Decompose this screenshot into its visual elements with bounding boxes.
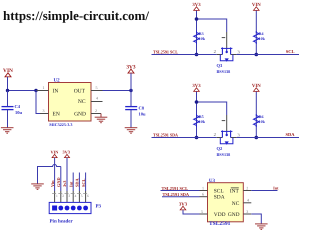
svg-text:MIC5225-3.3: MIC5225-3.3 bbox=[49, 122, 72, 127]
svg-text:Pin header: Pin header bbox=[50, 218, 74, 224]
svg-text:2: 2 bbox=[246, 185, 248, 190]
svg-text:10k: 10k bbox=[259, 36, 266, 41]
svg-text:TSL2591 SDA: TSL2591 SDA bbox=[163, 192, 190, 197]
svg-text:Vin: Vin bbox=[50, 180, 55, 187]
wire U3 SDA bbox=[162, 196, 200, 198]
pin 2 GND stub bbox=[91, 113, 101, 115]
svg-text:GND: GND bbox=[74, 112, 86, 118]
node 3V3 power flag (regulator output) bbox=[126, 64, 136, 90]
pin 5 OUT stub bbox=[91, 90, 103, 92]
svg-text:VDD: VDD bbox=[214, 212, 226, 218]
wire U3 INT bbox=[251, 190, 277, 192]
resistor R3 10k bbox=[194, 31, 206, 44]
node VIN flag (SCL pullup) bbox=[252, 2, 261, 54]
pin 5 VDD stub bbox=[200, 213, 208, 215]
resistor R6 10k bbox=[254, 114, 266, 127]
svg-text:P3: P3 bbox=[96, 204, 102, 210]
wire header pin5 SDA bbox=[78, 173, 80, 192]
ground at U3 GND bbox=[255, 224, 268, 230]
svg-text:BSS138: BSS138 bbox=[217, 69, 231, 74]
pin 2 INT stub bbox=[243, 190, 251, 192]
junction R4/SCL rail bbox=[254, 53, 258, 57]
svg-text:1: 1 bbox=[56, 194, 58, 198]
svg-text:10k: 10k bbox=[199, 36, 206, 41]
svg-text:BSS138: BSS138 bbox=[217, 152, 231, 157]
svg-text:Q3: Q3 bbox=[217, 63, 224, 68]
svg-text:10u: 10u bbox=[139, 112, 147, 117]
node 3V3 flag above header bbox=[62, 150, 69, 158]
svg-text:EN: EN bbox=[53, 112, 60, 118]
svg-text:U2: U2 bbox=[54, 78, 61, 84]
wire Q2 drain to SDA bbox=[231, 137, 237, 139]
resistor R4 10k bbox=[254, 31, 266, 44]
svg-text:INT: INT bbox=[230, 189, 240, 195]
svg-text:5: 5 bbox=[96, 85, 98, 90]
wire gate branch SCL bbox=[197, 19, 227, 32]
svg-text:4: 4 bbox=[247, 198, 249, 203]
pin 3 GND stub bbox=[243, 213, 251, 215]
svg-text:SCL: SCL bbox=[81, 179, 86, 187]
svg-text:3v3: 3v3 bbox=[62, 181, 67, 187]
wire VIN rail to U2 IN bbox=[7, 90, 37, 92]
svg-text:OUT: OUT bbox=[74, 88, 86, 94]
pin 6 SDA stub bbox=[200, 196, 208, 198]
wire header pin4 Int bbox=[72, 173, 74, 192]
pin 4 NC stub bbox=[243, 202, 251, 204]
junction at OUT/C8 bbox=[129, 89, 132, 92]
svg-text:Q2: Q2 bbox=[217, 146, 224, 151]
svg-text:TSL2591 SDA: TSL2591 SDA bbox=[153, 133, 179, 138]
junction at EN branch bbox=[34, 89, 37, 92]
node 3V3 flag (SCL pullup) bbox=[192, 2, 201, 54]
node VIN power flag (regulator input) bbox=[3, 68, 13, 91]
wire header pin3 3v3 bbox=[66, 158, 68, 191]
transistor Q3 BSS138 bbox=[214, 38, 241, 74]
svg-text:10u: 10u bbox=[15, 110, 23, 115]
svg-text:3: 3 bbox=[68, 194, 70, 198]
svg-text:Int: Int bbox=[273, 186, 279, 191]
header round pads 2-6 bbox=[58, 206, 63, 211]
svg-text:C4: C4 bbox=[15, 104, 21, 109]
ground at header GND bbox=[31, 184, 44, 190]
svg-text:NC: NC bbox=[232, 201, 240, 207]
capacitor C4 bbox=[2, 91, 23, 128]
svg-text:1: 1 bbox=[43, 85, 45, 90]
pin 4 NC stub bbox=[91, 101, 103, 103]
node VIN flag above header bbox=[50, 150, 59, 158]
wire header pin6 SCL bbox=[85, 173, 87, 192]
wire U3 GND to ground bbox=[251, 214, 261, 224]
svg-text:SDA: SDA bbox=[285, 132, 295, 137]
svg-text:10k: 10k bbox=[259, 119, 266, 124]
wire Q3 drain to SCL bbox=[231, 54, 237, 56]
wire header pin2 GND with hop over pin1 wire bbox=[38, 165, 61, 184]
ground below C8 bbox=[125, 128, 138, 134]
svg-text:U3: U3 bbox=[209, 178, 216, 184]
pin 1 IN stub bbox=[37, 90, 49, 92]
regulator U2 MIC5225-3.3 bbox=[49, 78, 92, 127]
svg-text:4: 4 bbox=[96, 96, 98, 101]
svg-text:6: 6 bbox=[87, 194, 89, 198]
junction R5/SDA rail bbox=[195, 136, 199, 140]
wire TSL2591 SDA to Q2 source bbox=[152, 137, 217, 139]
svg-text:3V3: 3V3 bbox=[62, 150, 69, 155]
svg-text:2: 2 bbox=[95, 108, 97, 113]
capacitor C8 bbox=[125, 91, 146, 128]
node 3V3 flag (SDA pullup) bbox=[192, 83, 201, 137]
junction gate branch SCL bbox=[195, 17, 199, 21]
svg-text:3: 3 bbox=[246, 209, 248, 214]
connector P3 header body bbox=[49, 202, 91, 213]
svg-text:SDA: SDA bbox=[214, 195, 225, 201]
svg-text:NC: NC bbox=[78, 99, 86, 105]
svg-text:https://simple-circuit.com/: https://simple-circuit.com/ bbox=[3, 8, 149, 23]
header pin number ticks bbox=[52, 193, 87, 195]
svg-text:SDA: SDA bbox=[75, 178, 80, 187]
svg-text:1: 1 bbox=[202, 185, 204, 190]
svg-text:4: 4 bbox=[75, 194, 77, 198]
svg-text:Int: Int bbox=[68, 181, 73, 187]
node 3V3 flag (U3 VDD) bbox=[179, 202, 200, 214]
pin 3 EN stub bbox=[40, 113, 49, 115]
svg-text:GND: GND bbox=[56, 177, 61, 187]
svg-text:SCL: SCL bbox=[286, 49, 295, 54]
svg-text:2: 2 bbox=[62, 194, 64, 198]
svg-text:5: 5 bbox=[81, 194, 83, 198]
wire EN branch bbox=[36, 91, 40, 114]
svg-text:6: 6 bbox=[202, 192, 204, 197]
svg-text:IN: IN bbox=[53, 88, 59, 94]
transistor Q2 BSS138 bbox=[214, 121, 241, 157]
node VIN flag (SDA pullup) bbox=[252, 83, 261, 137]
svg-text:10k: 10k bbox=[199, 119, 206, 124]
svg-text:GND: GND bbox=[228, 212, 240, 218]
svg-text:VIN: VIN bbox=[50, 150, 59, 155]
junction gate branch SDA bbox=[195, 100, 199, 104]
svg-text:SCL: SCL bbox=[214, 189, 224, 195]
svg-text:TSL2591: TSL2591 bbox=[209, 221, 231, 227]
header pin 1 square pad bbox=[52, 206, 57, 211]
wire header pin1 Vin bbox=[54, 158, 56, 191]
wire OUT to 3V3 rail bbox=[103, 90, 132, 92]
wire gate branch SDA bbox=[197, 102, 227, 115]
resistor R5 10k bbox=[194, 114, 206, 127]
junction R6/SDA rail bbox=[254, 136, 258, 140]
ground below C4 bbox=[1, 128, 14, 134]
wire TSL2591 SCL to Q3 source bbox=[152, 54, 217, 56]
svg-text:3: 3 bbox=[43, 108, 45, 113]
svg-text:TSL2591 SCL: TSL2591 SCL bbox=[162, 186, 189, 191]
svg-text:C8: C8 bbox=[139, 106, 145, 111]
ground at U2 GND pin bbox=[95, 114, 108, 123]
wire U3 SCL bbox=[161, 190, 200, 192]
sensor U3 TSL2591 body bbox=[208, 178, 244, 227]
junction at VIN/C4 bbox=[6, 89, 9, 92]
junction R3/SCL rail bbox=[195, 53, 199, 57]
svg-text:5: 5 bbox=[201, 209, 203, 214]
pin 1 SCL stub bbox=[200, 190, 208, 192]
svg-text:TSL2591 SCL: TSL2591 SCL bbox=[153, 50, 178, 55]
